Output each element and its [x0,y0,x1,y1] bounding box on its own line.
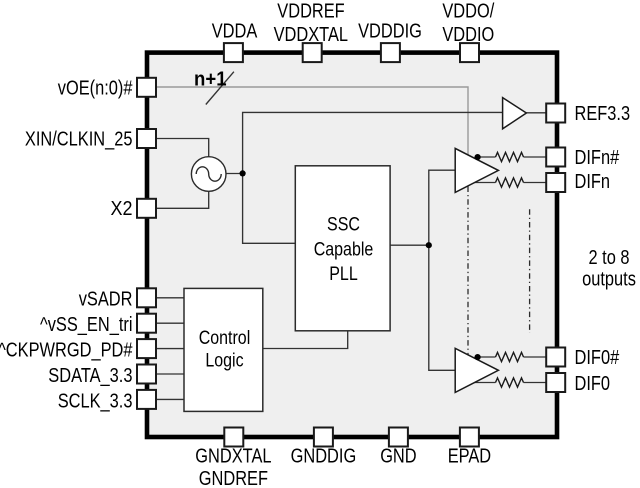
repetition line (dash-dot) below DIFn buffer [467,187,469,355]
buffer U3 DIFn differential output [455,148,498,192]
oscillator Y1 (crystal osc symbol) [191,157,226,192]
node DIFn# tap [475,154,481,160]
node DIF0# tap [475,354,481,360]
repetition line (dash-dot) right column [529,209,531,333]
pin vOE(n:0)# [137,78,156,97]
resistor, DIF0# series damping [496,352,524,361]
svg-text:outputs: outputs [582,268,636,290]
resistor, DIFn# series damping [496,152,524,161]
resistor, DIFn series damping [496,178,524,187]
svg-text:GNDXTAL: GNDXTAL [195,445,271,467]
svg-text:SCLK_3.3: SCLK_3.3 [58,391,133,413]
svg-text:vOE(n:0)#: vOE(n:0)# [58,77,133,99]
pin EPAD [460,428,479,447]
svg-text:EPAD: EPAD [448,445,491,467]
svg-text:Capable: Capable [314,238,374,260]
svg-text:X2: X2 [111,198,133,220]
pin VDDREF/VDDXTAL [303,43,322,62]
svg-text:Control: Control [199,327,251,349]
svg-text:VDDIO: VDDIO [442,24,494,46]
pin XIN/CLKIN_25 [137,129,156,148]
svg-text:VDDXTAL: VDDXTAL [274,24,348,46]
svg-text:vSADR: vSADR [79,288,133,310]
pin SCLK_3.3 [137,390,156,409]
wire oscillator output to node A [226,173,243,175]
pin DIF0# [546,348,565,367]
SSC Capable PLL block U1 [295,166,390,331]
resistor, DIF0 series damping [496,378,524,387]
wire SCLK_3.3 to control logic [156,398,185,400]
svg-text:^vSS_EN_tri: ^vSS_EN_tri [40,314,133,336]
pin ^CKPWRGD_PD# [137,339,156,358]
svg-text:^CKPWRGD_PD#: ^CKPWRGD_PD# [0,340,133,362]
buffer U4 DIF0 differential output [455,348,498,392]
wire DIF0# output [478,356,547,358]
svg-text:DIFn#: DIFn# [575,147,620,169]
svg-text:2 to 8: 2 to 8 [589,247,630,269]
wire DIFn output [474,182,547,184]
svg-text:GND: GND [380,445,416,467]
svg-text:VDDREF: VDDREF [277,1,344,23]
pin X2 [137,199,156,218]
svg-text:Logic: Logic [205,349,243,371]
pin GNDDIG [314,428,333,447]
svg-text:REF3.3: REF3.3 [575,103,631,125]
wire node B trunk to DIFn and DIF0 buffers [429,170,455,370]
wire REF buffer to REF3.3 pin [526,112,546,114]
svg-text:VDDDIG: VDDDIG [358,21,422,43]
pin VDDA [224,43,243,62]
svg-text:VDDA: VDDA [212,20,258,42]
wire vSADR to control logic [156,297,185,299]
svg-text:n+1: n+1 [194,69,227,91]
wire node A trunk: up to REF buffer, down to PLL input [243,112,503,243]
pin GND [389,428,408,447]
svg-text:GNDDIG: GNDDIG [291,445,357,467]
pin DIF0 [546,373,565,392]
svg-text:DIF0#: DIF0# [575,347,620,369]
Control Logic block U2 [184,288,263,411]
svg-text:VDDO/: VDDO/ [442,1,494,23]
pin VDDDIG [381,43,400,62]
IC body outline [147,53,557,437]
svg-text:DIF0: DIF0 [575,373,611,395]
pin DIFn [546,173,565,192]
svg-text:PLL: PLL [329,263,358,285]
wire SDATA_3.3 to control logic [156,373,185,375]
wire PLL output to node B [390,244,429,246]
wire XIN to oscillator [156,139,209,158]
wire DIF0 output [474,382,547,384]
node A junction [240,170,246,176]
node B junction [426,242,432,248]
wire control logic to PLL [263,331,348,349]
wire X2 to oscillator [156,191,209,209]
bus-width slash n+1 [206,72,234,105]
pin VDDO/VDDIO [460,43,479,62]
wire DIFn# output [478,156,547,158]
svg-text:GNDREF: GNDREF [199,468,268,488]
svg-text:DIFn: DIFn [575,171,611,193]
pin REF3.3 [546,104,565,123]
pin GNDXTAL/GNDREF [224,428,243,447]
pin ^vSS_EN_tri [137,314,156,333]
svg-text:SSC: SSC [327,214,360,236]
svg-text:XIN/CLKIN_25: XIN/CLKIN_25 [25,128,133,150]
wire vSS_EN_tri to control logic [156,322,185,324]
buffer U2 REF3.3 output [503,98,527,129]
pin vSADR [137,288,156,307]
pin DIFn# [546,148,565,167]
svg-text:SDATA_3.3: SDATA_3.3 [48,365,132,387]
wire vOE output-enable bus (gray) [156,87,469,156]
pin SDATA_3.3 [137,365,156,384]
wire CKPWRGD_PD# to control logic [156,348,185,350]
